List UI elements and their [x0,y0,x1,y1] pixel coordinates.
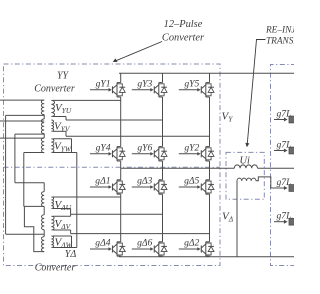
IGBT gY6 with antiparallel diode [132,147,167,161]
gate arrow g7L #3 [271,187,285,189]
IGBT gY2 with antiparallel diode [179,147,214,161]
phase drop wire C [23,153,25,207]
wire VYV bottom [53,130,66,132]
positive dc rail [119,72,294,74]
re-injection switch (cut off) #3 [289,185,294,192]
bridge leg 3 wire [209,73,211,82]
re-injection transformer Ui boundary box [226,152,264,199]
delta primary feed wire B [15,182,44,184]
delta primary feed stub [43,183,45,192]
wire VdU bottom [53,208,71,210]
wire to leg 2 [71,213,163,215]
gate arrow g7L #2 [274,150,285,152]
IGBT gΔ4 with antiparallel diode [90,242,125,256]
wire VYW top [53,138,72,140]
jog wire [65,117,67,121]
primary tap wire C [24,152,44,154]
Ydelta secondary winding VdV [51,216,54,230]
VdW box edge wire [71,236,73,248]
wire VdW bottom [53,247,77,249]
YY / Y-delta converter divider [4,166,221,168]
IGBT gΔ6 with antiparallel diode [132,242,167,256]
Ydelta primary winding U [42,192,45,207]
wire VdW top [53,235,72,237]
mid dc rail [121,167,235,169]
wire to leg 3 [71,233,210,235]
IGBT gY4 with antiparallel diode [90,147,125,161]
svg-text:gΔ5: gΔ5 [184,176,199,187]
Ydelta primary junction wire [43,230,45,237]
IGBT gΔ1 with antiparallel diode [90,180,125,194]
jog wire [70,209,72,217]
svg-text:gY1: gY1 [96,78,111,89]
re-injection switch (cut off) #1 [289,116,294,123]
svg-text:gΔ3: gΔ3 [137,176,152,187]
wire VYU top to leg 1 [53,99,121,101]
VYW box edge wire [71,139,73,153]
Ydelta primary winding W [42,237,45,252]
YY primary winding V [41,119,44,134]
Ui lower winding [237,178,256,181]
wire VdV bottom [53,229,71,231]
jog wire [65,131,67,136]
svg-text:RE–INJE: RE–INJE [265,25,294,35]
wire to leg 3 [66,135,210,137]
delta primary return wire [24,206,44,251]
svg-text:gΔ2: gΔ2 [184,238,199,249]
IGBT gΔ5 with antiparallel diode [179,180,214,194]
wire to leg 2 [66,119,163,121]
IGBT gY5 with antiparallel diode [179,83,214,97]
svg-text:gY4: gY4 [96,142,111,153]
gate arrow g7L #1 [274,119,285,121]
negative dc rail [119,256,294,258]
phase W input wire [0,137,44,139]
wire VYW bottom [53,152,77,154]
svg-text:gΔ1: gΔ1 [95,176,110,187]
YY secondary winding VYU [51,100,54,116]
Ydelta secondary winding VdW [51,236,53,248]
delta primary feed wire A [6,233,45,235]
Ui upper winding [234,165,257,168]
YY primary winding U [41,100,44,115]
jog wire [70,230,72,234]
bridge leg 1 wire [120,73,122,82]
svg-text:gΔ4: gΔ4 [95,238,110,249]
leader arrow to Ui box [247,40,265,144]
YY primary winding W [41,138,44,153]
re-injection switch (cut off) #4 [289,218,294,225]
wire VdU top to leg 1 [53,196,121,198]
svg-text:Converter: Converter [34,84,75,95]
Ui lower winding left drop wire [236,181,238,257]
svg-text:YΔ: YΔ [65,249,77,260]
Ydelta secondary winding VdU [51,197,53,209]
IGBT gY3 with antiparallel diode [132,83,167,97]
bridge leg 2 wire [162,73,164,82]
YY primary junction wire [43,115,45,119]
phase V input wire [0,120,44,122]
phase U input wire [0,99,44,101]
wire VYU bottom [53,116,66,118]
phase drop wire A [5,115,7,234]
primary tap wire A [6,114,45,116]
Ydelta primary junction wire [43,207,45,215]
YY primary junction wire [43,134,45,138]
svg-text:YY: YY [57,71,70,82]
Ydelta primary winding V [42,215,45,230]
svg-text:12–Pulse: 12–Pulse [164,19,203,30]
phase drop wire B [14,134,16,183]
wire VdV top [53,215,71,217]
svg-text:gY5: gY5 [184,78,199,89]
IGBT gY1 with antiparallel diode [90,83,125,97]
re-injection bridge boundary box (cut off) [271,65,297,266]
svg-text:TRANSFO: TRANSFO [266,36,294,46]
IGBT gΔ3 with antiparallel diode [132,180,167,194]
svg-text:gY2: gY2 [184,142,199,153]
svg-text:gY6: gY6 [137,142,152,153]
YY secondary winding VYV [51,120,53,131]
Ui lower winding output wire [256,177,271,188]
12-pulse converter boundary box [4,64,221,266]
leader arrow to 12-pulse box [116,42,163,61]
delta primary feed wire C [24,205,44,207]
Ui upper winding output wire [258,167,295,169]
re-injection switch (cut off) #2 [289,147,294,154]
primary tap wire B [15,133,44,135]
svg-text:Converter: Converter [162,33,205,44]
svg-text:Converter: Converter [35,263,76,274]
svg-text:gY3: gY3 [137,78,152,89]
YY secondary winding VYW [51,139,53,153]
YY-Ydelta secondary tie wire [76,153,78,248]
svg-text:gΔ6: gΔ6 [137,238,152,249]
IGBT gΔ2 with antiparallel diode [179,242,214,256]
gate arrow g7L #4 [274,221,285,223]
